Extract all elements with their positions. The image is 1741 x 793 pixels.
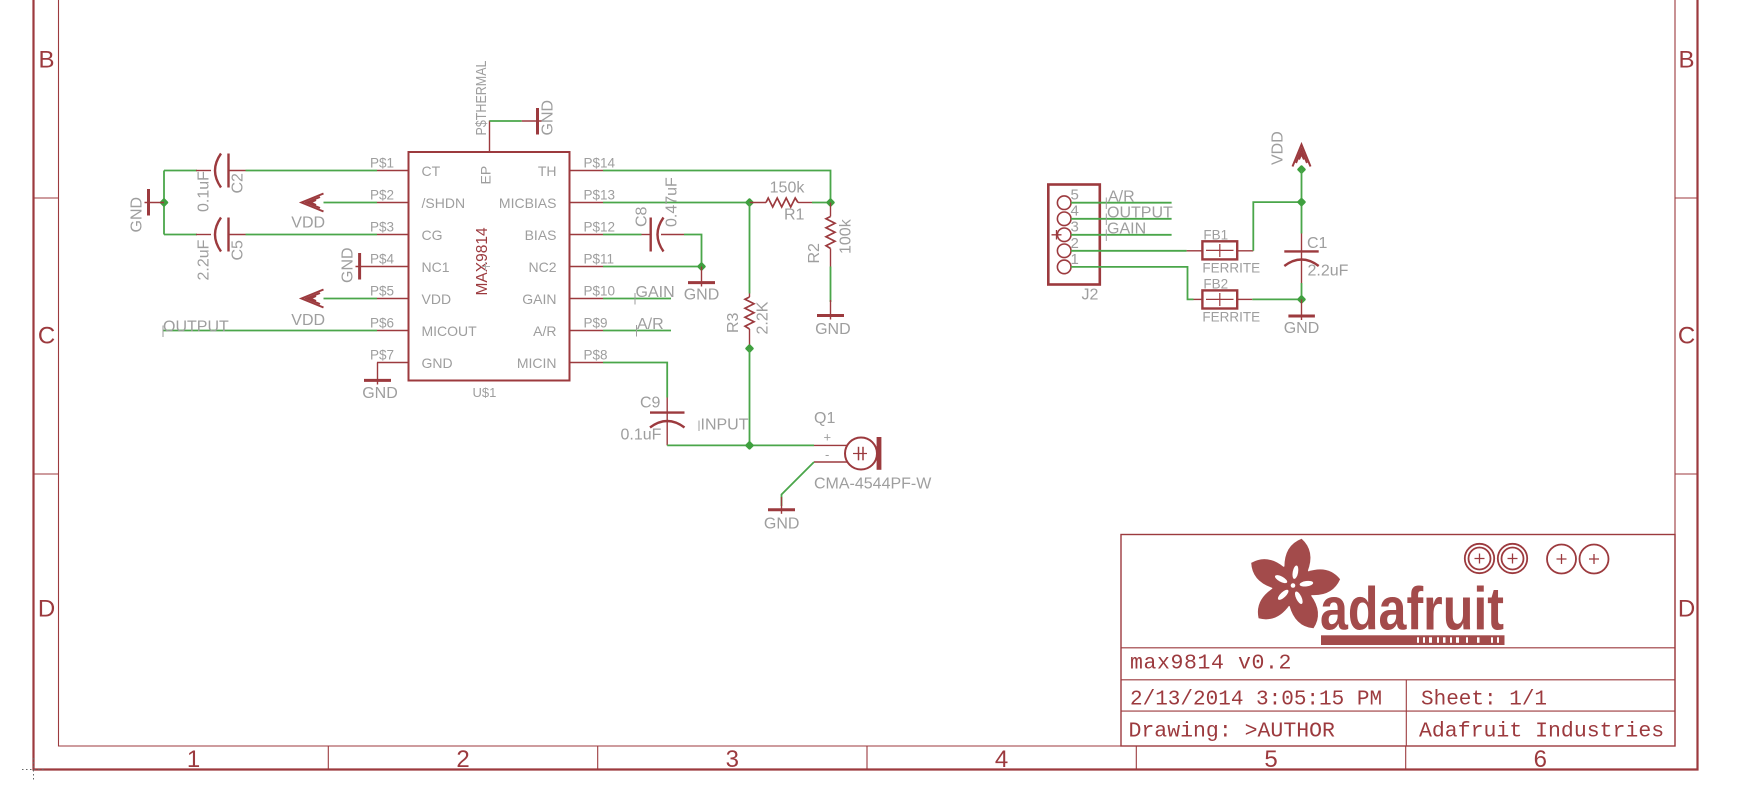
- svg-text:GND: GND: [684, 287, 720, 304]
- op-amp IC U1 MAX9814 body: [409, 152, 570, 381]
- wire VDD arrow to P$2: [324, 202, 378, 204]
- column divider tick 2/3: [597, 746, 599, 770]
- svg-text:BIAS: BIAS: [525, 227, 557, 243]
- svg-text:GND: GND: [815, 321, 851, 338]
- svg-text:P$13: P$13: [584, 188, 616, 203]
- svg-text:MICOUT: MICOUT: [422, 323, 478, 339]
- junction at GND rail: [159, 198, 169, 208]
- row divider tick right C/D: [1675, 473, 1698, 475]
- svg-text:VDD: VDD: [291, 215, 325, 232]
- svg-text:adafruit: adafruit: [1320, 576, 1504, 643]
- svg-text:P$1: P$1: [370, 156, 394, 171]
- logo mount hole circle 1: [1465, 544, 1609, 574]
- svg-text:P$10: P$10: [584, 284, 616, 299]
- svg-text:P$6: P$6: [370, 316, 394, 331]
- svg-text:P$7: P$7: [370, 348, 394, 363]
- svg-text:P$11: P$11: [584, 252, 615, 267]
- svg-text:R1: R1: [784, 207, 805, 224]
- capacitor C1: [1284, 234, 1318, 284]
- svg-text:3: 3: [1071, 219, 1079, 236]
- svg-text:MICIN: MICIN: [517, 355, 557, 371]
- svg-text:4: 4: [1071, 203, 1079, 220]
- column divider tick 5/6: [1405, 746, 1407, 770]
- svg-text:P$2: P$2: [370, 188, 394, 203]
- U1 left pin stubs P$1-P$7: [377, 171, 409, 363]
- U1 left pin names: [422, 163, 478, 371]
- capacitor C2: [196, 154, 246, 188]
- svg-text:EP: EP: [478, 166, 494, 185]
- capacitor C5: [196, 218, 246, 252]
- junction VDD rail / FB1: [1297, 197, 1307, 207]
- title block line under logo: [1121, 647, 1675, 649]
- wire P$11 to junction: [603, 266, 702, 268]
- A/R label tick: [636, 325, 638, 337]
- ground symbol below C8 junction: [688, 267, 715, 287]
- svg-text:GAIN: GAIN: [1107, 221, 1146, 238]
- wire OUTPUT net to P$6: [163, 330, 378, 332]
- svg-text:MICBIAS: MICBIAS: [499, 195, 557, 211]
- svg-text:J2: J2: [1082, 287, 1099, 304]
- J2 origin cross: [1052, 230, 1062, 240]
- svg-text:Q1: Q1: [814, 410, 835, 427]
- connector J2 body: [1048, 185, 1100, 285]
- svg-text:INPUT: INPUT: [701, 417, 749, 434]
- sheet frame outer right line: [1696, 0, 1698, 771]
- wire P$8 to C9: [603, 363, 667, 398]
- svg-text:R2: R2: [806, 243, 823, 264]
- column divider tick 1/2: [327, 746, 329, 770]
- logo mount hole circle 4: [1580, 545, 1609, 574]
- svg-text:GND: GND: [1284, 320, 1320, 337]
- svg-text:R3: R3: [725, 312, 742, 333]
- svg-text:VDD: VDD: [422, 291, 452, 307]
- junction R3 bottom: [745, 344, 755, 354]
- svg-text:P$12: P$12: [584, 220, 616, 235]
- wire C5 to P$3: [246, 234, 378, 236]
- wire C1 to gnd node: [1301, 283, 1303, 299]
- svg-text:GND: GND: [540, 100, 557, 136]
- svg-text:C2: C2: [230, 173, 247, 194]
- ground symbol at P$4 (rotated): [356, 253, 378, 280]
- junction input row: [745, 441, 755, 451]
- wire P$13 to R1: [603, 202, 750, 204]
- svg-text:2: 2: [1071, 235, 1079, 252]
- svg-text:CG: CG: [422, 227, 443, 243]
- microphone Q1 leads: [814, 445, 847, 462]
- svg-text:OUTPUT: OUTPUT: [163, 319, 229, 336]
- svg-text:B: B: [1678, 47, 1694, 74]
- svg-text:0.1uF: 0.1uF: [196, 171, 213, 212]
- ground symbol at thermal pad (rotated): [522, 108, 542, 135]
- INPUT label tick: [698, 421, 700, 432]
- wire vertical C2/C5 left rail: [163, 171, 165, 235]
- svg-text:NC2: NC2: [528, 259, 556, 275]
- svg-text:CMA-4544PF-W: CMA-4544PF-W: [814, 476, 932, 493]
- svg-text:TH: TH: [538, 163, 557, 179]
- svg-text:0.47uF: 0.47uF: [664, 177, 681, 227]
- svg-text:C8: C8: [634, 206, 651, 227]
- microphone Q1 body: [845, 438, 877, 470]
- title block vertical divider: [1405, 680, 1407, 746]
- sheet frame outer bottom line: [33, 768, 1699, 770]
- adafruit logo underline bar: [1321, 635, 1505, 645]
- svg-text:FERRITE: FERRITE: [1202, 310, 1260, 325]
- OUTPUT label tick: [162, 326, 164, 338]
- wire R2 bottom to gnd: [830, 267, 832, 303]
- svg-text:3: 3: [726, 746, 739, 773]
- svg-text:FB1: FB1: [1203, 227, 1228, 242]
- svg-text:2.2K: 2.2K: [755, 301, 772, 334]
- svg-text:2.2uF: 2.2uF: [196, 239, 213, 280]
- capacitor C8: [642, 218, 685, 252]
- svg-text:GAIN: GAIN: [636, 284, 675, 301]
- junction below VDD arrow: [1297, 165, 1307, 175]
- svg-text:VDD: VDD: [291, 312, 325, 329]
- wire J2 pin4 OUTPUT: [1071, 218, 1172, 220]
- microphone Q1 internal element: [853, 447, 867, 461]
- resistor R1 150k: [750, 198, 813, 207]
- wire J2 pin2 to FB1: [1071, 250, 1187, 252]
- wire J2 pin1 to FB2: [1071, 267, 1194, 300]
- svg-text:GND: GND: [764, 516, 800, 533]
- svg-text:4: 4: [995, 746, 1008, 773]
- adafruit logo flower: [1251, 539, 1340, 629]
- column divider tick 4/5: [1135, 746, 1137, 770]
- svg-text:CT: CT: [422, 163, 441, 179]
- svg-text:FB2: FB2: [1203, 276, 1228, 291]
- wire R3 bottom to input row: [749, 349, 751, 446]
- logo mount hole circle 2: [1498, 544, 1527, 573]
- ground symbol left of C2 rail (rotated): [145, 189, 165, 216]
- svg-text:0.1uF: 0.1uF: [621, 427, 662, 444]
- svg-text:5: 5: [1264, 746, 1277, 773]
- svg-text:6: 6: [1534, 746, 1547, 773]
- A/R label tick at J2: [1105, 198, 1107, 210]
- svg-text:OUTPUT: OUTPUT: [1107, 205, 1173, 222]
- junction C1/FB2: [1297, 295, 1307, 305]
- ground symbol at P$7: [364, 363, 391, 385]
- svg-text:FERRITE: FERRITE: [1202, 261, 1260, 276]
- svg-text:2/13/2014 3:05:15 PM: 2/13/2014 3:05:15 PM: [1130, 689, 1382, 712]
- svg-text:A/R: A/R: [1108, 189, 1135, 206]
- svg-text:-: -: [825, 447, 829, 462]
- adafruit logo flower center cutouts: [1274, 565, 1314, 605]
- capacitor C9: [650, 398, 685, 446]
- ground symbol below C1: [1288, 299, 1315, 320]
- svg-text:Sheet: 1/1: Sheet: 1/1: [1421, 689, 1547, 712]
- wire P$9 A/R: [603, 330, 671, 332]
- wire C2 left to corner: [164, 170, 197, 172]
- junction C8/P$11: [697, 262, 707, 272]
- sheet frame inner right line: [1674, 0, 1676, 747]
- VDD supply arrow at P$2: [302, 194, 324, 212]
- wire VDD rail vertical: [1301, 170, 1303, 234]
- sheet frame inner bottom line: [59, 745, 1676, 747]
- svg-text:max9814 v0.2: max9814 v0.2: [1130, 652, 1292, 676]
- ground symbol below mic: [768, 497, 795, 514]
- wire corner to C5 left: [164, 234, 197, 236]
- title block line under date row: [1121, 710, 1675, 712]
- svg-text:GND: GND: [422, 355, 453, 371]
- sheet origin dotted cross: [22, 758, 46, 782]
- svg-text:C9: C9: [640, 395, 661, 412]
- svg-text:P$3: P$3: [370, 220, 394, 235]
- wire node to R3 top: [749, 203, 751, 294]
- wire C8 to P$11 rail: [684, 235, 702, 267]
- svg-text:2.2uF: 2.2uF: [1308, 263, 1349, 280]
- wire J2 pin3 GAIN: [1071, 234, 1172, 236]
- junction P$13/R1/R3: [745, 198, 755, 208]
- microphone Q1 backplate bar: [877, 437, 882, 470]
- svg-text:GAIN: GAIN: [522, 291, 556, 307]
- resistor R2 100k: [826, 203, 835, 267]
- svg-text:/SHDN: /SHDN: [422, 195, 466, 211]
- svg-text:VDD: VDD: [1270, 131, 1287, 165]
- svg-text:Drawing: >AUTHOR: Drawing: >AUTHOR: [1129, 720, 1336, 744]
- ferrite bead FB2: [1194, 290, 1253, 308]
- U1 origin cross: [481, 262, 490, 271]
- resistor R3 2.2K: [745, 294, 754, 349]
- wire P$14 to R2 top: [603, 171, 831, 203]
- sheet frame inner left line: [58, 0, 60, 747]
- wire FB2 to C1 bottom node: [1252, 298, 1301, 300]
- U1 pin number labels P$8-P$14: [584, 156, 616, 363]
- svg-text:P$8: P$8: [584, 348, 608, 363]
- svg-text:100k: 100k: [838, 218, 855, 254]
- svg-text:2: 2: [456, 746, 469, 773]
- wire P$12 to C8: [603, 234, 642, 236]
- row divider tick left C/D: [34, 473, 59, 475]
- svg-text:A/R: A/R: [637, 316, 664, 333]
- title block outline: [1121, 535, 1675, 747]
- VDD supply arrow at P$5: [302, 290, 324, 308]
- svg-text:NC1: NC1: [422, 259, 450, 275]
- svg-text:1: 1: [1071, 251, 1079, 268]
- wire thermal pad to gnd: [490, 120, 522, 122]
- title block line under title row: [1121, 679, 1675, 681]
- svg-text:MAX9814: MAX9814: [474, 227, 491, 295]
- svg-text:1: 1: [187, 746, 200, 773]
- ferrite bead FB1: [1187, 241, 1254, 259]
- column divider tick 3/4: [866, 746, 868, 770]
- svg-text:C: C: [38, 323, 55, 350]
- svg-text:GND: GND: [362, 385, 398, 402]
- svg-text:A/R: A/R: [533, 323, 556, 339]
- svg-text:P$9: P$9: [584, 316, 608, 331]
- junction R1/R2/TH: [826, 198, 836, 208]
- svg-text:P$THERMAL: P$THERMAL: [473, 61, 490, 136]
- wire P$10 GAIN: [603, 298, 671, 300]
- logo mount hole circle 3: [1547, 545, 1576, 574]
- sheet frame outer left line: [32, 0, 34, 771]
- GAIN label tick: [634, 293, 636, 305]
- svg-text:5: 5: [1071, 187, 1079, 204]
- svg-text:D: D: [1678, 596, 1695, 623]
- U1 right pin stubs P$8-P$14: [570, 171, 604, 363]
- svg-text:U$1: U$1: [473, 385, 497, 400]
- svg-text:GND: GND: [129, 197, 146, 233]
- svg-text:P$14: P$14: [584, 156, 616, 171]
- U1 thermal pad pin stub: [489, 121, 491, 153]
- svg-text:C1: C1: [1307, 235, 1328, 252]
- U1 pin number labels P$1-P$7: [370, 156, 395, 363]
- svg-text:GND: GND: [340, 247, 357, 283]
- svg-text:+: +: [824, 430, 832, 445]
- wire VDD arrow to P$5: [324, 298, 378, 300]
- svg-text:B: B: [38, 47, 54, 74]
- svg-text:P$4: P$4: [370, 252, 395, 267]
- wire P$1 to C2: [246, 170, 378, 172]
- wire FB1 to VDD rail: [1253, 202, 1301, 251]
- row divider tick right B/C: [1675, 197, 1698, 199]
- wire input row to mic: [667, 444, 814, 446]
- svg-text:C5: C5: [230, 240, 247, 261]
- svg-text:D: D: [38, 596, 55, 623]
- OUTPUT label tick at J2: [1105, 214, 1107, 226]
- ground symbol below R2: [817, 300, 844, 320]
- J2 pin circles: [1057, 196, 1071, 274]
- wire R1 to R2 node: [812, 202, 831, 204]
- GAIN label tick at J2: [1105, 230, 1107, 242]
- adafruit logo underline knockout text marks: [1417, 637, 1499, 643]
- wire mic minus to gnd: [782, 462, 815, 506]
- row divider tick left B/C: [34, 197, 59, 199]
- svg-text:P$5: P$5: [370, 284, 394, 299]
- VDD supply arrow top right: [1293, 145, 1311, 171]
- svg-text:C: C: [1678, 323, 1695, 350]
- wire J2 pin5 A/R: [1071, 202, 1172, 204]
- svg-text:150k: 150k: [770, 180, 806, 197]
- svg-text:Adafruit Industries: Adafruit Industries: [1419, 720, 1664, 744]
- U1 right pin names: [499, 163, 557, 371]
- logo mount hole crosses: [1475, 554, 1600, 565]
